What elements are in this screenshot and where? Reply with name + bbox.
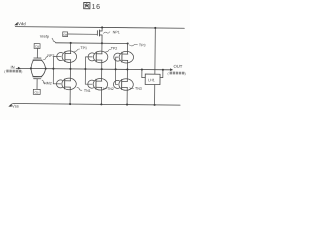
TP2 drain lead (101, 43, 103, 53)
capacitor/clock box CB (top of transmission gate) (34, 44, 40, 49)
node dot NP1 source on Vdd (101, 26, 103, 28)
svg-text:TP3: TP3 (139, 43, 146, 47)
TP2 gate wire (85, 57, 92, 69)
svg-text:CB: CB (34, 91, 38, 95)
TP1 source lead (69, 60, 71, 69)
transistor TP1 (circle symbol) (57, 51, 77, 63)
node dot TG output (45, 68, 47, 70)
node dot LH1 feed on Vdd (154, 27, 156, 29)
LH1 input wire (142, 70, 146, 78)
svg-text:OUT: OUT (174, 64, 183, 69)
TN2 gate wire (85, 69, 92, 84)
svg-text:Vrefp: Vrefp (40, 34, 49, 39)
Vdd power rail (15, 27, 184, 29)
TP3 drain lead (127, 44, 129, 54)
LH1 Vss wire (154, 85, 156, 105)
node dot bus col3 (126, 68, 128, 70)
svg-text:TN2: TN2 (107, 87, 114, 91)
svg-text:NP1: NP1 (113, 30, 120, 34)
LH1 Vdd feed wire (154, 28, 156, 74)
transistor TP3 (circle symbol) (114, 51, 134, 63)
node dot bias rail col1 (70, 42, 72, 44)
svg-text:): ) (21, 70, 22, 74)
wire CB to NP1 gate (68, 33, 98, 35)
transmission gate top transistor NP3 (31, 58, 46, 69)
svg-text:TP2: TP2 (111, 47, 118, 51)
svg-text:(: ( (167, 72, 169, 76)
TN1 drain lead (69, 69, 71, 81)
LH1 output wire (160, 70, 163, 78)
Vrefp bias rail (56, 42, 128, 45)
transmission gate bottom transistor NM2 (31, 68, 46, 78)
TN3 source lead (126, 88, 128, 105)
transistor TN2 (circle symbol) (88, 78, 108, 90)
svg-text:): ) (185, 72, 186, 76)
Vss terminal arrow (8, 103, 11, 106)
node dot LH1 input (141, 68, 143, 70)
node dot LH1 output (162, 69, 164, 71)
OUT note (to video signal line) kanji smudge (167, 72, 185, 76)
transistor TN3 (circle symbol) (113, 79, 133, 91)
TN1 source lead (69, 87, 71, 104)
signal bus wire (16, 68, 170, 69)
node dot bus TP1/TN1 gate (52, 68, 54, 70)
TN2 drain lead (101, 69, 103, 81)
TP3 source lead (126, 60, 128, 69)
svg-text:Vss: Vss (12, 104, 19, 109)
node dot bus TP3/TN3 gate (115, 68, 117, 70)
node dot Vss col1 (69, 103, 71, 105)
TN2 source lead (100, 87, 102, 104)
TP2 leader squiggle (106, 49, 111, 51)
svg-text:TN1: TN1 (84, 89, 91, 93)
Vrefp leader squiggle (52, 38, 56, 42)
node dot Vss LH1 (154, 104, 156, 106)
TP3 gate wire (116, 57, 118, 69)
node dot TG input (30, 67, 32, 69)
transistor TP2 (circle symbol) (88, 51, 108, 63)
svg-text:IN: IN (11, 65, 15, 70)
Vdd terminal arrow (14, 22, 17, 25)
svg-text:LH1: LH1 (148, 78, 155, 82)
OUT arrowhead (170, 68, 173, 71)
node dot bus col2 (101, 68, 103, 70)
clock box CB (gate of NP1) (63, 32, 68, 37)
svg-text:TP1: TP1 (80, 46, 87, 50)
TP1 leader squiggle (74, 49, 79, 51)
svg-text:TN3: TN3 (135, 87, 142, 91)
capacitor/clock box CB (bottom of transmission gate) (33, 89, 40, 94)
wire CB box to TG top gate (36, 48, 38, 57)
TP2 source lead (101, 60, 103, 69)
NP1 leader squiggle (103, 32, 109, 34)
TN2 leader squiggle (103, 87, 107, 90)
node dot bus col1 (69, 68, 71, 70)
TP3 leader squiggle (129, 44, 137, 46)
node dot bus TP2/TN2 gate (84, 68, 86, 70)
TN1 leader squiggle (77, 87, 82, 90)
transistor TN1 (circle symbol) (56, 78, 76, 90)
node dot Vss col2 (100, 103, 102, 105)
svg-text:CB: CB (63, 33, 67, 37)
Vss power rail (13, 104, 180, 106)
node dot bias rail col3 (127, 42, 129, 44)
latch LH1 box (145, 74, 160, 85)
svg-text:Vdd: Vdd (18, 21, 26, 26)
figure title 図16 (kanji drawn as paths) (84, 2, 101, 10)
svg-text:(: ( (4, 70, 6, 74)
node dot Vss col3 (126, 104, 128, 106)
wire TG bottom gate to CB box (36, 79, 38, 89)
NP3 leader squiggle (44, 57, 48, 60)
TN3 gate wire (115, 69, 117, 84)
svg-text:16: 16 (92, 4, 101, 11)
NM2 leader squiggle (42, 80, 45, 84)
IN note (video signal) kanji smudge (4, 70, 22, 74)
TN3 leader squiggle (130, 87, 134, 90)
transistor NP1 (97, 27, 102, 43)
IN arrowhead (18, 67, 21, 70)
node dot bias rail col2 (101, 42, 103, 44)
TN1 gate wire (53, 69, 61, 84)
svg-text:NM2: NM2 (44, 81, 52, 85)
svg-text:CB: CB (35, 45, 39, 49)
TP1 drain lead (70, 43, 72, 53)
TP1 gate wire (53, 57, 61, 69)
TN3 drain lead (126, 69, 128, 81)
